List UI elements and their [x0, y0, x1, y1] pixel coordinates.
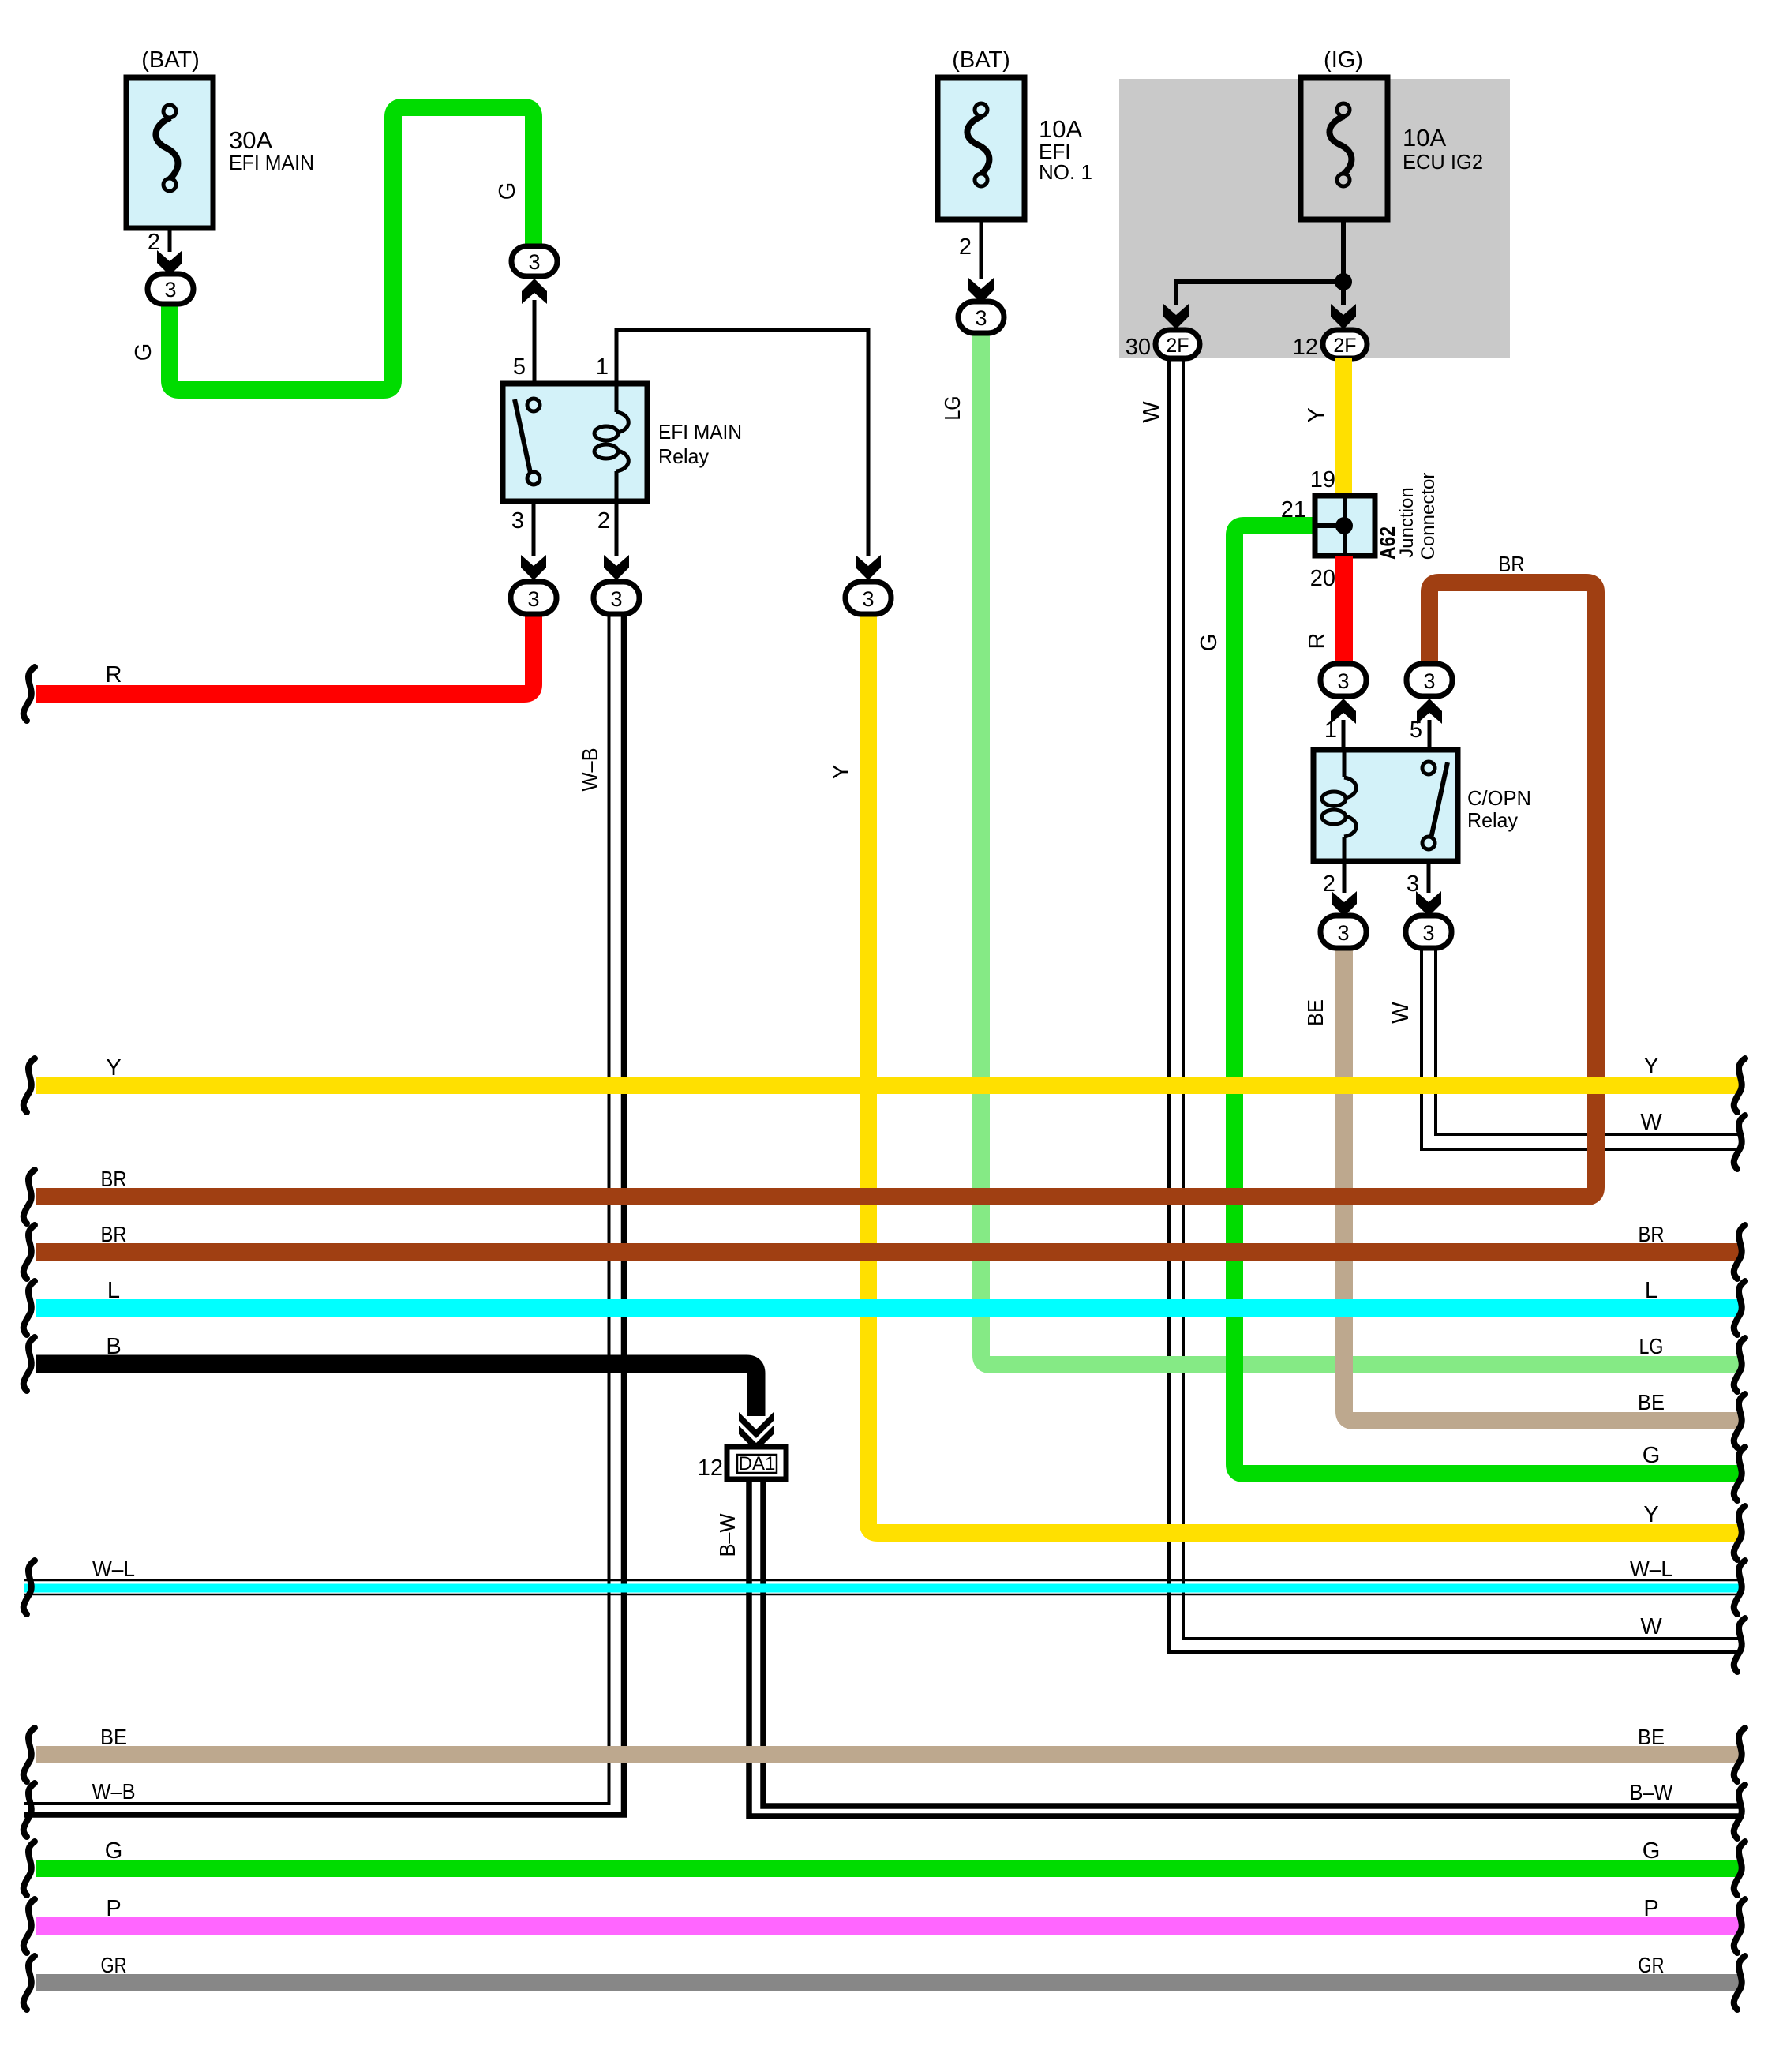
- wire BR horizontal bus full width: [36, 1243, 1740, 1261]
- svg-text:BR: BR: [101, 1222, 127, 1246]
- fuse F1 30A EFI MAIN: [126, 47, 314, 228]
- wire C/OPN relay pin 2: [1323, 861, 1344, 897]
- svg-text:3: 3: [975, 306, 987, 330]
- wire break squiggle L left: [24, 1281, 35, 1335]
- svg-text:LG: LG: [1639, 1334, 1664, 1358]
- svg-text:10A: 10A: [1403, 124, 1446, 152]
- svg-text:B: B: [106, 1334, 121, 1359]
- wire EFI MAIN relay pin 2: [597, 501, 616, 556]
- svg-text:G: G: [105, 1838, 123, 1864]
- wire break squiggle BE2 right: [1734, 1728, 1745, 1782]
- connector 2F (pin 30): [1156, 330, 1200, 358]
- label BE (vertical wire): [1303, 999, 1328, 1026]
- arrow down into connector 3 (fuse F2): [968, 278, 994, 303]
- svg-text:12: 12: [1293, 335, 1318, 360]
- svg-text:2F: 2F: [1333, 335, 1356, 357]
- svg-text:EFI MAIN: EFI MAIN: [658, 420, 742, 444]
- wire EFI MAIN relay pin 3: [511, 501, 534, 556]
- svg-text:P: P: [106, 1896, 121, 1921]
- wire BR from C/OPN relay pin 5 up, right, down, then left to left edge: [36, 583, 1596, 1197]
- wire break squiggle BE right: [1734, 1394, 1745, 1448]
- svg-text:W–L: W–L: [92, 1557, 135, 1581]
- svg-text:C/OPN: C/OPN: [1467, 786, 1531, 810]
- gray box (IG power region): [1119, 79, 1510, 358]
- wire from fuse F3 to junction: [1341, 219, 1346, 305]
- relay U1 EFI MAIN Relay: [503, 330, 868, 556]
- wire C/OPN relay pin 3: [1407, 861, 1429, 897]
- junction connector A62: [1281, 473, 1439, 591]
- svg-text:GR: GR: [101, 1953, 127, 1977]
- wire BE horizontal bus full width (bottom): [36, 1746, 1740, 1763]
- svg-text:3: 3: [511, 508, 524, 534]
- svg-text:W–L: W–L: [1630, 1557, 1672, 1581]
- svg-text:Y: Y: [1643, 1054, 1658, 1079]
- connector 2F (pin 12): [1323, 330, 1367, 358]
- svg-text:DA1: DA1: [739, 1453, 776, 1474]
- connector 3 (above EFI MAIN relay pin 5): [511, 246, 557, 276]
- label B-W (vertical wire): [715, 1513, 740, 1557]
- label W (vertical wire from C/OPN pin 3): [1388, 1002, 1414, 1024]
- wire W double line from C/OPN relay pin 3 down then right to right edge: [1422, 947, 1740, 1149]
- svg-text:W: W: [1640, 1110, 1662, 1135]
- svg-text:5: 5: [513, 354, 526, 380]
- wire break squiggle BR right: [1734, 1225, 1745, 1279]
- svg-text:BE: BE: [1638, 1390, 1665, 1414]
- wire break squiggle B left: [24, 1337, 35, 1391]
- svg-text:Relay: Relay: [658, 444, 709, 468]
- svg-text:Y: Y: [1643, 1502, 1658, 1527]
- wire L horizontal bus full width: [36, 1299, 1740, 1317]
- wire G from 30A fuse connector: down, right, up, right, down into relay-5 connector: [170, 107, 534, 390]
- wire break squiggle LG right: [1734, 1338, 1745, 1392]
- connector 3 (C/OPN pin 2): [1320, 916, 1366, 948]
- wire LG from EFI NO.1 fuse connector down then right to right edge: [981, 332, 1740, 1365]
- fuse F3 10A ECU IG2: [1301, 47, 1483, 219]
- wire break squiggle GR right: [1734, 1956, 1745, 2010]
- svg-text:W: W: [1640, 1614, 1662, 1639]
- wire break squiggle B-W right: [1734, 1785, 1745, 1838]
- connector 3 (above C/OPN pin 1): [1320, 664, 1366, 696]
- svg-text:G: G: [1643, 1838, 1661, 1864]
- svg-text:BR: BR: [1639, 1222, 1665, 1246]
- wire Y horizontal bus full width: [36, 1077, 1740, 1094]
- wire GR horizontal bus full width: [36, 1974, 1740, 1991]
- wire R from EFI MAIN relay pin 3 connector down then left to left edge: [36, 615, 534, 694]
- fuse F2 10A EFI NO.1: [938, 47, 1092, 219]
- svg-text:Y: Y: [1304, 407, 1329, 422]
- wire break squiggle Y right: [1734, 1058, 1745, 1112]
- svg-text:3: 3: [527, 587, 539, 611]
- svg-text:Connector: Connector: [1418, 473, 1439, 560]
- arrow down into connector 3 (fuse F1): [157, 250, 182, 275]
- wire W-L horizontal bus full width: [24, 1580, 1740, 1594]
- wire break squiggle GR left: [24, 1956, 35, 2010]
- svg-text:12: 12: [698, 1456, 723, 1481]
- svg-text:R: R: [106, 662, 122, 688]
- wire R from A62 pin 20 down to connector: [1305, 556, 1344, 665]
- wire break squiggle G2 right: [1734, 1842, 1745, 1895]
- connector DA1: [698, 1447, 786, 1481]
- svg-text:BE: BE: [1303, 999, 1328, 1026]
- arrow down into connector 3 (C/OPN pin 2): [1332, 891, 1357, 916]
- wire break squiggle W-B left: [24, 1783, 35, 1837]
- svg-text:1: 1: [596, 354, 609, 380]
- svg-text:G: G: [495, 182, 520, 200]
- svg-text:2: 2: [597, 508, 610, 534]
- wire break squiggle Y2 right: [1734, 1506, 1745, 1560]
- wire break squiggle G left: [24, 1842, 35, 1895]
- wire B from left edge right then down to DA1 connector: [36, 1364, 756, 1416]
- arrow down into connector 3 (relay pin 2): [604, 555, 629, 580]
- svg-text:G: G: [1197, 634, 1222, 652]
- wire W double line from 2F pin 30 down then right to right edge: [1169, 358, 1740, 1652]
- svg-text:10A: 10A: [1039, 115, 1082, 143]
- label W-B (vertical wire): [578, 748, 602, 792]
- wire P horizontal bus full width: [36, 1917, 1740, 1935]
- arrow double chevron into DA1: [739, 1412, 773, 1452]
- connector 3 (relay pin 3): [511, 582, 556, 614]
- connector 3 (below fuse F2): [958, 302, 1004, 333]
- wire break squiggle BR1 left: [24, 1170, 35, 1223]
- svg-text:3: 3: [164, 278, 176, 302]
- wire G from A62 pin 21 left, down, then right to right edge: [1234, 526, 1740, 1474]
- svg-text:BR: BR: [101, 1167, 127, 1191]
- wire break squiggle BE left: [24, 1728, 35, 1782]
- wire break squiggle BR2 left: [24, 1225, 35, 1279]
- label G (fuse wire): [131, 343, 156, 362]
- svg-text:30A: 30A: [229, 126, 272, 154]
- svg-text:2: 2: [1323, 871, 1335, 897]
- connector 3 (below fuse F1): [148, 274, 193, 304]
- svg-text:W: W: [1388, 1002, 1414, 1024]
- svg-text:BR: BR: [1499, 552, 1525, 576]
- svg-text:Relay: Relay: [1467, 808, 1518, 832]
- svg-text:(BAT): (BAT): [952, 47, 1010, 73]
- node junction dot: [1335, 273, 1352, 290]
- wire W-B double line from EFI MAIN relay pin 2 down and left to left edge: [24, 615, 624, 1815]
- svg-text:Y: Y: [106, 1055, 121, 1081]
- svg-text:Junction: Junction: [1396, 487, 1418, 557]
- label BR (top): [1499, 552, 1525, 576]
- label LG (vertical wire): [940, 396, 965, 421]
- svg-text:2: 2: [148, 230, 160, 255]
- wire break squiggle R left: [24, 667, 35, 721]
- svg-text:G: G: [1643, 1443, 1661, 1468]
- svg-text:L: L: [107, 1278, 120, 1303]
- wire break squiggle W2 right: [1734, 1618, 1745, 1672]
- svg-text:2: 2: [959, 234, 972, 260]
- wire G horizontal bus full width (bottom): [36, 1860, 1740, 1877]
- svg-text:W–B: W–B: [578, 748, 602, 792]
- svg-text:P: P: [1643, 1896, 1658, 1921]
- svg-text:21: 21: [1281, 497, 1306, 523]
- svg-text:ECU IG2: ECU IG2: [1403, 150, 1483, 174]
- svg-text:19: 19: [1310, 467, 1335, 493]
- arrow down into connector 2F pin 12: [1293, 304, 1356, 360]
- connector 3 (relay pin 1 wire): [845, 582, 891, 614]
- wire break squiggle G right: [1734, 1447, 1745, 1501]
- svg-text:Y: Y: [829, 764, 854, 779]
- svg-text:LG: LG: [940, 396, 965, 421]
- svg-text:W: W: [1139, 401, 1164, 423]
- connector 3 (above C/OPN pin 5): [1407, 664, 1452, 696]
- svg-text:(IG): (IG): [1324, 47, 1363, 73]
- connector 3 (C/OPN pin 3): [1406, 916, 1451, 948]
- svg-text:3: 3: [862, 587, 874, 611]
- wire fuse F1 pin 2: [148, 228, 170, 255]
- svg-text:3: 3: [1423, 669, 1435, 693]
- wire BE from C/OPN relay pin 2 connector down then right to right edge: [1344, 947, 1740, 1421]
- svg-text:NO. 1: NO. 1: [1039, 160, 1092, 184]
- wire break squiggle P right: [1734, 1899, 1745, 1953]
- bus labels left side: [106, 1055, 121, 1081]
- wire Y from 2F-12 to A62 pin 19: [1304, 358, 1343, 497]
- bus labels right side: [1643, 1054, 1658, 1079]
- label R (left bus): [106, 662, 122, 688]
- arrow down into connector 3 (relay pin 1 wire): [856, 555, 881, 580]
- svg-text:2F: 2F: [1166, 335, 1189, 357]
- svg-text:3: 3: [1337, 921, 1349, 945]
- svg-text:EFI MAIN: EFI MAIN: [229, 151, 314, 174]
- connector 3 (relay pin 2): [594, 582, 639, 614]
- svg-text:W–B: W–B: [92, 1779, 136, 1804]
- label Y (vertical wire): [829, 764, 854, 779]
- svg-text:BE: BE: [100, 1725, 127, 1749]
- wire fuse F2 pin 2: [959, 219, 981, 279]
- wire break squiggle W-L right: [1734, 1561, 1745, 1614]
- wire break squiggle L right: [1734, 1281, 1745, 1335]
- arrow down into connector 3 (C/OPN pin 3): [1416, 891, 1441, 916]
- arrow up into connector 3 (relay pin 5): [522, 279, 547, 385]
- svg-text:R: R: [1305, 633, 1330, 650]
- arrow down into connector 3 (relay pin 3): [521, 555, 546, 580]
- relay U2 C/OPN Relay: [1313, 750, 1531, 861]
- svg-text:3: 3: [1337, 669, 1349, 693]
- wire break squiggle P left: [24, 1899, 35, 1953]
- wire break squiggle W-L left: [24, 1561, 35, 1614]
- arrow up into connector 3 (C/OPN pin 1): [1324, 699, 1356, 751]
- svg-text:20: 20: [1310, 566, 1335, 591]
- svg-text:BE: BE: [1638, 1725, 1665, 1749]
- svg-text:G: G: [131, 343, 156, 362]
- wire Y from EFI MAIN relay pin 1 connector down then right to right edge: [868, 615, 1740, 1533]
- label G (A62 wire): [1197, 634, 1222, 652]
- svg-text:30: 30: [1126, 335, 1151, 360]
- wire branch to 2F pin 30: [1176, 282, 1343, 305]
- wire B-W double line from DA1 down then right to right edge: [749, 1479, 1740, 1816]
- svg-text:3: 3: [528, 250, 540, 274]
- wire break squiggle Y left: [24, 1058, 35, 1112]
- svg-text:3: 3: [610, 587, 622, 611]
- svg-text:3: 3: [1422, 921, 1434, 945]
- svg-text:5: 5: [1410, 718, 1422, 743]
- svg-text:B–W: B–W: [715, 1513, 740, 1557]
- arrow down into connector 2F pin 30: [1126, 304, 1189, 360]
- label W (vertical wire from 2F-30): [1139, 401, 1164, 423]
- svg-text:L: L: [1645, 1278, 1657, 1303]
- svg-text:1: 1: [1324, 718, 1337, 743]
- wire break squiggle W right: [1734, 1115, 1745, 1169]
- svg-text:B–W: B–W: [1630, 1780, 1674, 1804]
- svg-text:(BAT): (BAT): [141, 47, 200, 73]
- svg-text:GR: GR: [1639, 1953, 1665, 1977]
- label G (relay-5 wire): [495, 182, 520, 200]
- arrow up into connector 3 (C/OPN pin 5): [1410, 699, 1442, 751]
